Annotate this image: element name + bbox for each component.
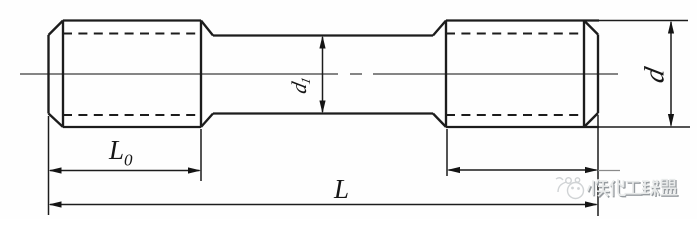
left chamfer boundary line xyxy=(62,21,64,128)
right shoulder bottom transition xyxy=(433,114,446,128)
right chamfer boundary line xyxy=(583,21,585,128)
left section bottom outline xyxy=(63,126,201,128)
centerline (axis) xyxy=(20,73,618,75)
extension line: top right for d xyxy=(598,20,688,22)
neck bottom outline xyxy=(213,112,433,114)
dimension line d xyxy=(670,22,672,126)
extension line: bottom right for d xyxy=(598,126,690,128)
stud outline: bottom-left chamfer xyxy=(49,114,64,128)
right thread root dashed line top xyxy=(446,33,584,35)
arrowhead d1 down xyxy=(319,101,325,114)
top-right chamfer xyxy=(584,21,598,35)
arrowhead right-length right xyxy=(585,167,598,173)
dimension line L0 xyxy=(50,170,200,172)
arrowhead L0 right xyxy=(188,167,201,173)
svg-text:d1: d1 xyxy=(287,74,313,96)
extension line: left end down xyxy=(48,116,50,215)
left thread runout line xyxy=(200,21,202,128)
label d1 (rotated) xyxy=(108,64,670,204)
extension line: left thread end down xyxy=(200,129,202,181)
svg-text:L0: L0 xyxy=(108,135,133,170)
watermark text shadow layer xyxy=(589,180,679,197)
left section top outline xyxy=(63,19,201,21)
right section bottom outline xyxy=(446,126,599,128)
top shoulder transition xyxy=(201,21,213,36)
dimension line right thread length xyxy=(449,169,597,171)
watermark logo panda xyxy=(556,178,584,199)
left thread root dashed line top xyxy=(63,33,201,35)
left thread root dashed line bottom xyxy=(63,114,201,116)
stud outline: left end face xyxy=(47,35,49,114)
dimension line d1 xyxy=(322,37,324,112)
stud outline: top-left chamfer xyxy=(49,21,64,36)
bottom shoulder transition xyxy=(201,114,213,128)
arrowhead right-length left xyxy=(447,167,460,173)
arrowhead d down xyxy=(668,114,674,127)
watermark text light layer xyxy=(588,179,678,196)
extension line: right thread start down xyxy=(446,129,448,176)
arrowhead L right xyxy=(585,201,598,207)
right section top outline xyxy=(446,19,599,21)
right thread runout line xyxy=(445,21,447,128)
right thread root dashed line bottom xyxy=(446,114,584,116)
svg-text:d: d xyxy=(640,64,671,85)
arrowhead L left xyxy=(49,201,62,207)
arrowhead d up xyxy=(668,21,674,34)
svg-text:L: L xyxy=(333,174,349,204)
right end face xyxy=(597,35,599,114)
extension line: right end down xyxy=(597,115,599,216)
gray overshoot of right thread-length dimension xyxy=(598,170,620,172)
arrowhead L0 left xyxy=(49,167,62,173)
dimension line L xyxy=(50,204,597,206)
arrowhead d1 up xyxy=(319,36,325,49)
watermark logo eyes xyxy=(571,187,580,190)
right shoulder top transition xyxy=(433,21,446,36)
bottom-right chamfer xyxy=(584,113,598,127)
neck top outline xyxy=(213,34,433,36)
